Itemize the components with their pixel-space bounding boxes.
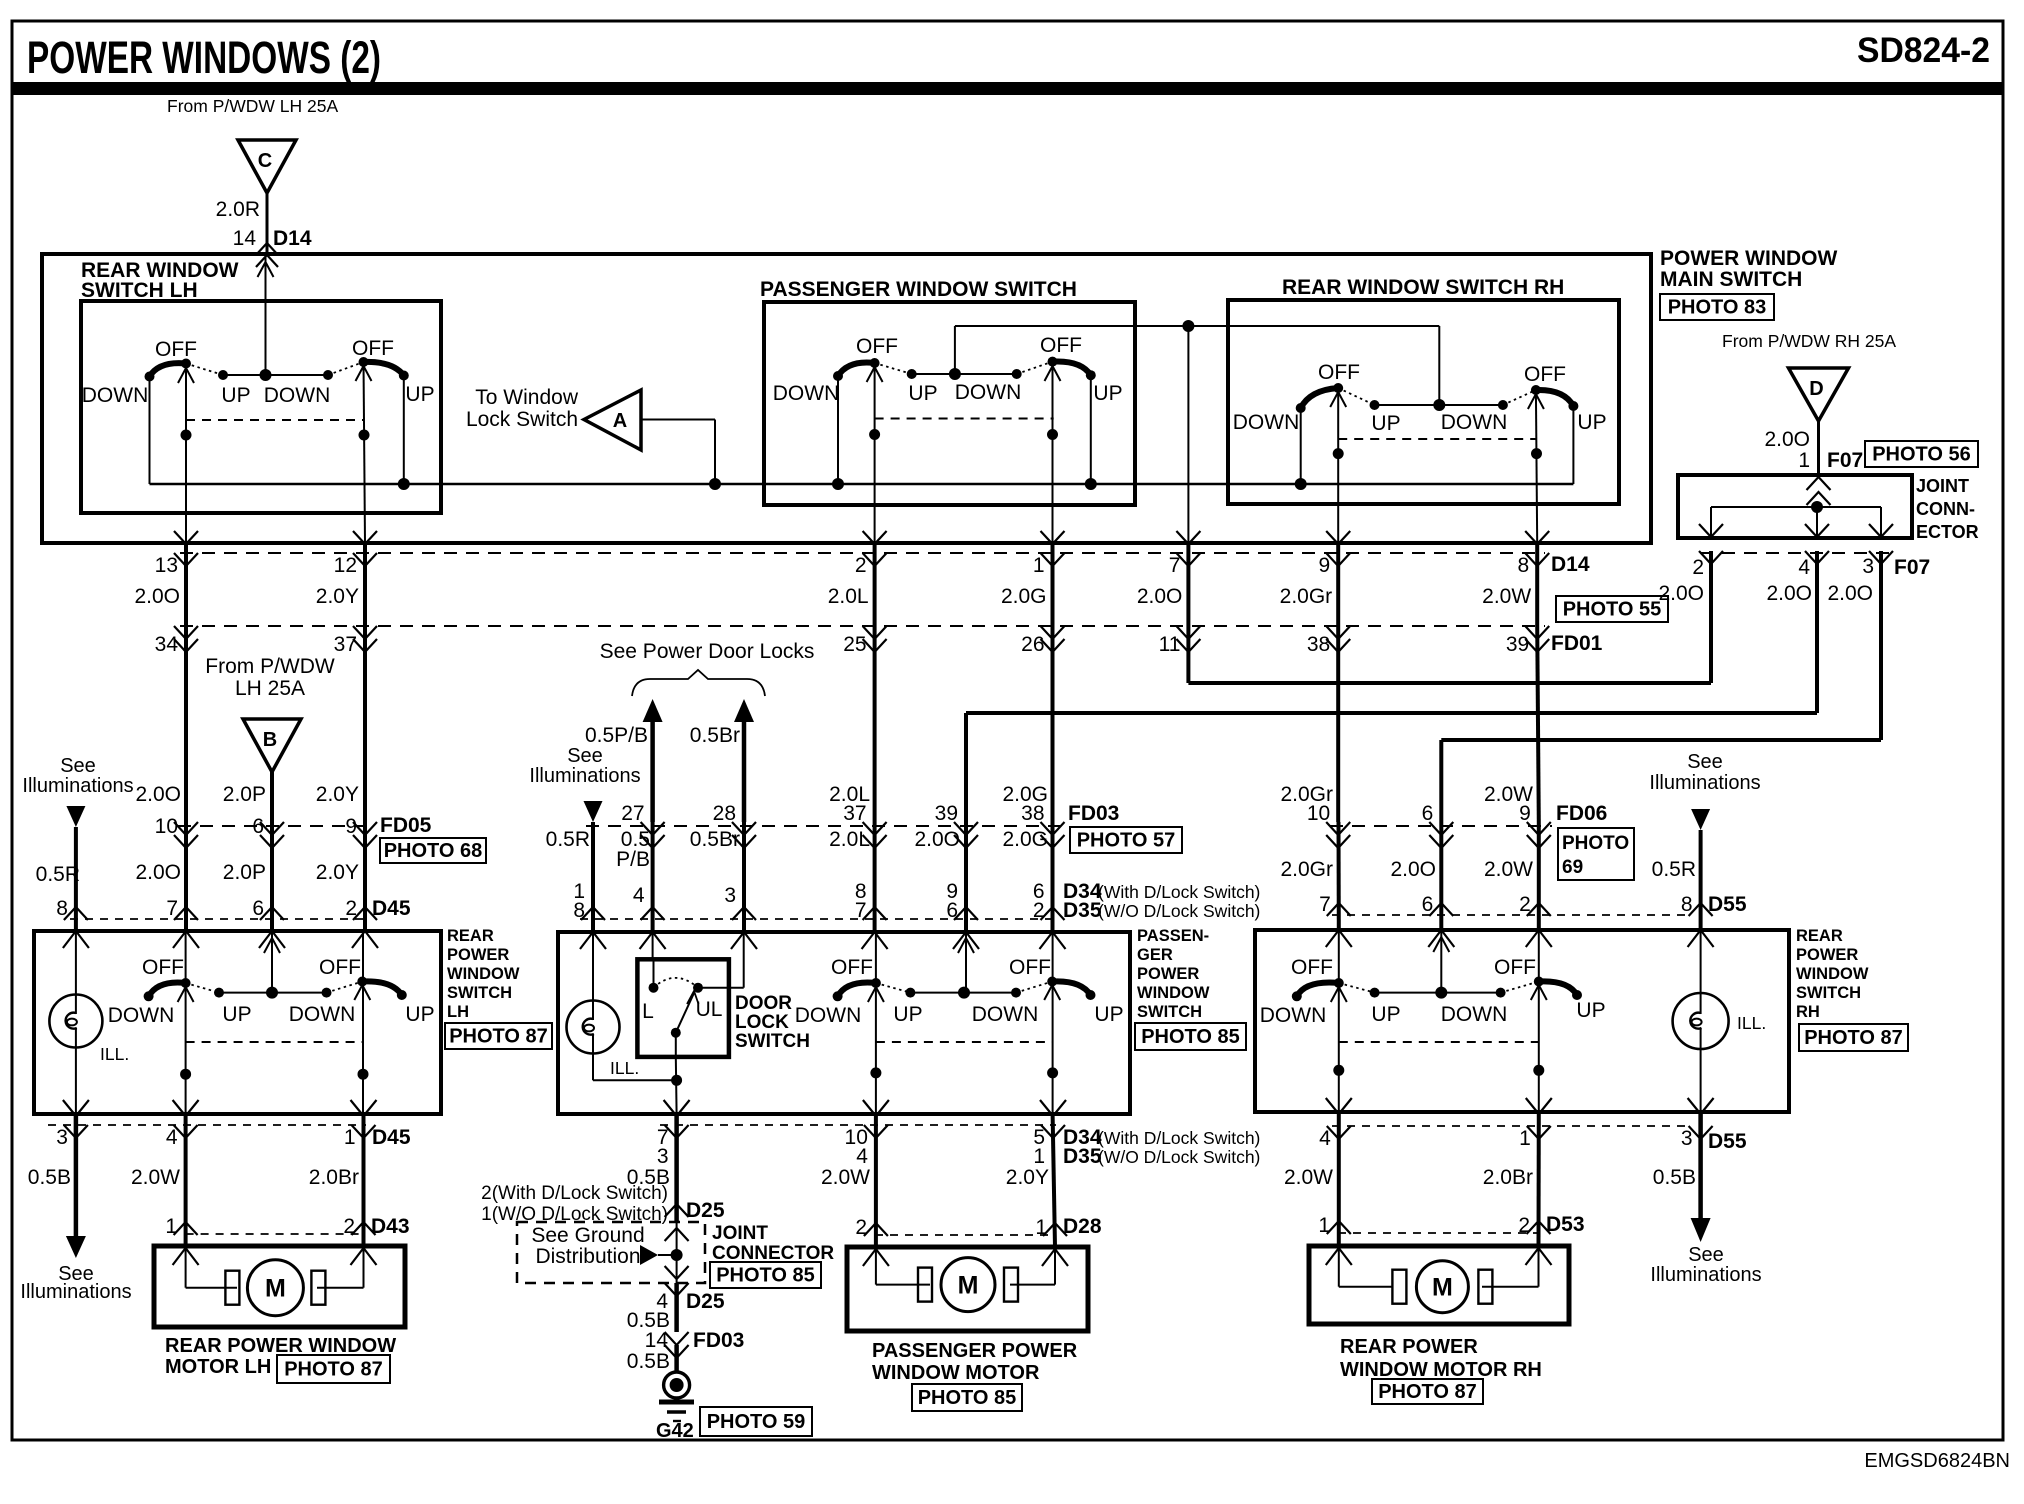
P DOWN1 drop to bus [837, 376, 839, 484]
svg-text:PHOTO 85: PHOTO 85 [918, 1387, 1017, 1409]
svg-text:WINDOW MOTOR RH: WINDOW MOTOR RH [1340, 1359, 1542, 1381]
wire 2.0Br RH [1537, 1112, 1541, 1246]
svg-text:7: 7 [1169, 554, 1181, 577]
label PHOTO 68 [380, 838, 486, 863]
illumination feed arrow right [1691, 809, 1710, 830]
FD03 pin 39 chevrons [954, 822, 978, 835]
wire UL to 0.5Br [698, 987, 744, 989]
svg-text:0.5B: 0.5B [1653, 1166, 1696, 1189]
svg-text:OFF: OFF [1318, 361, 1360, 384]
switch P-2 dotted to OFF [1017, 362, 1053, 374]
F07 exit chevrons pin2 [1699, 524, 1723, 537]
switch PL-2 arc [1052, 981, 1090, 995]
D45 pin 7 chevrons [174, 907, 198, 920]
bus wire from P center to RH center [954, 326, 956, 374]
door lock UL contact [693, 983, 703, 993]
LL mech linkage dashed [186, 1041, 364, 1043]
switch R-2 DOWN contact [1498, 400, 1508, 410]
switch RL mid line [1375, 992, 1501, 994]
svg-text:SWITCH: SWITCH [1796, 984, 1861, 1002]
svg-text:4: 4 [166, 1126, 178, 1149]
LH common 2 wire [356, 366, 372, 381]
svg-text:LH: LH [447, 1003, 469, 1021]
svg-text:UP: UP [222, 1003, 251, 1026]
wire 0.5B to FD03 [674, 1283, 679, 1332]
wire 2.0O col x=186 [184, 626, 188, 822]
connector D34/D35 bottom dashed line [660, 1124, 1056, 1126]
svg-text:POWER: POWER [1137, 965, 1199, 983]
svg-text:D35: D35 [1063, 899, 1102, 922]
svg-text:2.0Y: 2.0Y [316, 861, 359, 884]
wire 2.0G col [1051, 626, 1055, 822]
ground distribution arrow [640, 1245, 658, 1265]
svg-text:PASSENGER WINDOW SWITCH: PASSENGER WINDOW SWITCH [760, 278, 1077, 301]
D28 pin 1 chevrons [1043, 1223, 1067, 1236]
D14 pin 8 chevrons [1525, 531, 1549, 544]
svg-text:Illuminations: Illuminations [20, 1281, 131, 1303]
svg-text:2.0Gr: 2.0Gr [1280, 585, 1333, 608]
switch RL-2 dotted to OFF [1501, 982, 1539, 993]
PL mech linkage dashed [876, 1041, 1053, 1043]
switch R mid line [1375, 404, 1503, 406]
svg-text:OFF: OFF [1040, 334, 1082, 357]
wire [742, 822, 746, 932]
svg-text:DOWN: DOWN [955, 381, 1022, 404]
svg-text:D25: D25 [686, 1290, 725, 1313]
svg-text:From P/WDW RH 25A: From P/WDW RH 25A [1722, 331, 1896, 351]
FD06 pin 10 chevrons [1326, 822, 1350, 835]
svg-text:SWITCH: SWITCH [735, 1031, 810, 1052]
svg-text:2.0W: 2.0W [131, 1166, 180, 1189]
svg-text:From P/WDW: From P/WDW [205, 655, 335, 678]
svg-text:Distribution: Distribution [535, 1245, 640, 1268]
connector FD01 dashed line [180, 625, 1545, 627]
svg-text:GER: GER [1137, 946, 1173, 964]
svg-text:2.0Br: 2.0Br [1483, 1166, 1533, 1189]
svg-text:M: M [1432, 1274, 1453, 1302]
passenger power window switch box [558, 932, 1130, 1114]
wire lamp LH [75, 931, 77, 995]
connector triangle A [584, 390, 641, 450]
D55 pin 8 chevrons [1689, 903, 1713, 916]
ILL lamp RH [1673, 993, 1729, 1049]
svg-text:FD05: FD05 [380, 814, 432, 837]
svg-text:D: D [1809, 378, 1823, 400]
svg-text:2.0O: 2.0O [1390, 858, 1436, 881]
svg-text:REAR POWER: REAR POWER [1340, 1336, 1478, 1358]
svg-text:2: 2 [345, 897, 357, 920]
svg-text:39: 39 [935, 802, 958, 825]
illumination out arrow RH [1691, 1218, 1711, 1242]
joint connector F07 box [1678, 475, 1912, 538]
joint connector D25 dashed box [517, 1222, 705, 1283]
svg-text:POWER: POWER [1796, 946, 1858, 964]
svg-text:OFF: OFF [1494, 956, 1536, 979]
LL common 2 wire [354, 985, 370, 1000]
svg-text:FD03: FD03 [693, 1329, 744, 1352]
svg-text:34: 34 [155, 633, 179, 656]
wire 0.5P/B into L [652, 932, 654, 959]
D55 bottom pin 1 chevrons [1526, 1098, 1552, 1114]
FD01 pin 25 chevrons [863, 626, 887, 639]
wire [1535, 545, 1539, 626]
svg-text:38: 38 [1307, 633, 1330, 656]
D43 pin 1 chevrons [174, 1222, 198, 1235]
svg-text:See: See [1687, 751, 1723, 773]
svg-text:Illuminations: Illuminations [22, 775, 133, 797]
svg-text:CONNECTOR: CONNECTOR [712, 1243, 834, 1264]
wire 2.0W passenger [874, 1114, 878, 1247]
label PHOTO 85 (switch) [1135, 1023, 1246, 1050]
svg-text:10: 10 [155, 815, 178, 838]
D25 entry chevrons [665, 1204, 689, 1217]
wire pin14 into LH switch [265, 254, 267, 375]
svg-text:2.0P: 2.0P [223, 783, 266, 806]
svg-text:1: 1 [1033, 1145, 1045, 1168]
svg-text:L: L [642, 1000, 654, 1023]
FD01 pin 38 chevrons [1326, 626, 1350, 639]
FD05 pin 10 chevrons [174, 822, 198, 835]
svg-text:2.0W: 2.0W [1482, 585, 1531, 608]
switch RL-2 arc [1539, 981, 1577, 995]
wire [873, 545, 877, 626]
svg-text:DOWN: DOWN [289, 1003, 356, 1026]
svg-text:UP: UP [893, 1003, 922, 1026]
svg-text:1: 1 [1519, 1127, 1531, 1150]
D45 pin 6 chevrons [260, 907, 284, 920]
switch PL-2 dotted to OFF [1016, 982, 1052, 993]
rear power window switch RH box [1255, 930, 1789, 1112]
svg-text:D14: D14 [1551, 553, 1590, 576]
switch LL-1 arc [149, 983, 186, 997]
svg-text:8: 8 [56, 897, 68, 920]
svg-text:OFF: OFF [1524, 363, 1566, 386]
switch PL-1 dotted to UP [876, 983, 911, 993]
illumination feed arrow [66, 806, 85, 827]
svg-text:JOINT: JOINT [712, 1223, 768, 1244]
switch RL-2 DOWN contact [1496, 988, 1506, 998]
svg-text:6: 6 [1422, 802, 1434, 825]
ground G42 symbol [664, 1372, 690, 1398]
svg-text:From P/WDW LH 25A: From P/WDW LH 25A [167, 96, 338, 116]
svg-text:9: 9 [1319, 554, 1331, 577]
svg-text:DOWN: DOWN [264, 384, 331, 407]
svg-text:2.0G: 2.0G [1001, 585, 1047, 608]
svg-text:Illuminations: Illuminations [1650, 1264, 1761, 1286]
wire lamp RH [1700, 930, 1702, 993]
svg-text:1: 1 [1798, 449, 1810, 472]
switch P-1 arc [838, 363, 875, 376]
svg-text:UP: UP [1371, 1003, 1400, 1026]
wire [1051, 545, 1055, 626]
wire 2.0W RH [1337, 1112, 1341, 1246]
rear window switch LH box [81, 301, 441, 513]
wire 2.0P FD05-D45 [270, 822, 274, 931]
svg-text:0.5Br: 0.5Br [690, 724, 740, 747]
PL common 2 wire [1044, 985, 1060, 1000]
FD06 pin 9 chevrons [1527, 822, 1551, 835]
svg-text:UP: UP [908, 382, 937, 405]
svg-text:PHOTO 87: PHOTO 87 [1378, 1381, 1477, 1403]
svg-text:69: 69 [1562, 857, 1583, 878]
connector D34/D35 dashed line [580, 918, 1052, 920]
svg-text:(W/O D/Lock Switch): (W/O D/Lock Switch) [1098, 901, 1260, 921]
svg-text:MAIN SWITCH: MAIN SWITCH [1660, 268, 1802, 291]
label PHOTO 83 [1660, 294, 1774, 320]
svg-text:See: See [1688, 1244, 1724, 1266]
junction P-DOWN1 [832, 478, 844, 490]
svg-text:DOWN: DOWN [1233, 411, 1300, 434]
svg-text:2: 2 [855, 554, 867, 577]
svg-text:38: 38 [1021, 802, 1044, 825]
svg-text:PHOTO 87: PHOTO 87 [449, 1026, 548, 1048]
switch LL-1 dotted to UP [186, 983, 219, 993]
svg-text:9: 9 [1519, 802, 1531, 825]
svg-text:2.0O: 2.0O [1766, 582, 1812, 605]
D55 bottom pin 4 chevrons [1326, 1098, 1352, 1114]
svg-text:ECTOR: ECTOR [1916, 522, 1979, 542]
switch RL-1 arc [1297, 983, 1339, 997]
D45 bottom pin 4 chevrons [173, 1100, 199, 1116]
P UP2 drop to bus [1090, 375, 1092, 484]
svg-text:11: 11 [1159, 633, 1181, 656]
connector triangle D [1789, 368, 1849, 421]
connector D55 bottom dashed line [1332, 1125, 1692, 1127]
svg-text:WINDOW: WINDOW [1137, 984, 1210, 1002]
switch RL-1 dotted to UP [1339, 983, 1375, 993]
FD03 pin 37 chevrons [863, 822, 887, 835]
LL center wire to pin 6 [271, 931, 273, 993]
FD05 pin 9 chevrons [353, 822, 377, 835]
D34/D35 pin 6 chevrons [1041, 907, 1065, 920]
svg-text:2.0O: 2.0O [1658, 582, 1704, 605]
D45 pin 2 chevrons [353, 907, 377, 920]
svg-text:B: B [263, 729, 277, 751]
bus wire to window lock switch [150, 483, 1574, 485]
svg-text:WINDOW: WINDOW [1796, 965, 1869, 983]
svg-text:37: 37 [334, 633, 357, 656]
svg-text:JOINT: JOINT [1916, 476, 1969, 496]
door lock dotted arc [654, 978, 699, 988]
wire 2.0W col [1537, 626, 1539, 822]
svg-text:See Power Door Locks: See Power Door Locks [600, 640, 815, 663]
switch R-2 arc [1536, 390, 1574, 406]
junction P-UP2 [1085, 478, 1097, 490]
D55 pin 6 chevrons [1429, 903, 1453, 916]
D34/D35 pin 1 chevrons [581, 907, 605, 920]
D25 exit chevrons [665, 1266, 689, 1279]
svg-text:A: A [613, 410, 627, 432]
connector triangle C [238, 140, 296, 193]
connector D45 bottom dashed line [48, 1124, 366, 1126]
connector F07 dashed line [1700, 552, 1890, 554]
svg-text:2.0Y: 2.0Y [316, 585, 359, 608]
svg-text:0.5R: 0.5R [1652, 858, 1696, 881]
svg-text:2.0O: 2.0O [135, 861, 181, 884]
svg-text:REAR: REAR [1796, 927, 1843, 945]
R center wire to top bus [1438, 326, 1440, 405]
svg-text:2.0O: 2.0O [1827, 582, 1873, 605]
svg-text:D43: D43 [371, 1215, 410, 1238]
svg-text:SWITCH: SWITCH [1137, 1003, 1202, 1021]
F07 internal bus [1711, 506, 1881, 508]
P common 1 wire [867, 367, 883, 382]
svg-text:PHOTO 83: PHOTO 83 [1668, 297, 1767, 319]
wire 2.0P from B [270, 772, 274, 822]
svg-text:D35: D35 [1063, 1145, 1102, 1168]
D34/D35 pin 9 chevrons [954, 907, 978, 920]
label PHOTO 57 [1070, 827, 1182, 853]
svg-text:EMGSD6824BN: EMGSD6824BN [1864, 1450, 2010, 1472]
wire F07 pin2 stub [1709, 553, 1713, 626]
svg-text:DOWN: DOWN [795, 1004, 862, 1027]
connector D55 dashed line [1332, 914, 1690, 916]
D34/D35 pin 4 chevrons [641, 907, 665, 920]
svg-text:9: 9 [345, 815, 357, 838]
R UP2 drop to bus [1572, 406, 1574, 484]
svg-text:F07: F07 [1827, 449, 1863, 472]
label PHOTO 56 [1865, 441, 1978, 467]
F07 exit chevrons pin3 [1869, 524, 1893, 537]
connector triangle B [243, 719, 301, 772]
wire 2.0O from D [1817, 421, 1820, 475]
svg-text:(With D/Lock Switch): (With D/Lock Switch) [1098, 882, 1260, 902]
motor M2 [918, 1268, 932, 1302]
svg-text:27: 27 [621, 802, 644, 825]
switch R-1 dotted to UP [1338, 388, 1374, 405]
svg-text:See: See [567, 745, 603, 767]
svg-text:UP: UP [1576, 999, 1605, 1022]
svg-text:OFF: OFF [1291, 956, 1333, 979]
wire in D25 box [676, 1221, 678, 1283]
svg-text:D53: D53 [1546, 1213, 1585, 1236]
svg-text:FD01: FD01 [1551, 632, 1603, 655]
switch LL-2 dotted to OFF [327, 982, 363, 993]
switch LL mid line [219, 992, 327, 994]
D55 pin 2 chevrons [1527, 903, 1551, 916]
motor M1 [225, 1271, 239, 1305]
switch LL-2 arc [362, 981, 402, 995]
svg-text:6: 6 [1422, 893, 1434, 916]
svg-text:Lock Switch: Lock Switch [466, 408, 578, 431]
svg-text:P/B: P/B [616, 848, 650, 871]
svg-text:See Ground: See Ground [531, 1224, 644, 1247]
wire [964, 822, 968, 932]
wire 2.0O F07 pin2 riser [1186, 626, 1190, 683]
wire 2.0R from C to D14 pin 14 [266, 193, 269, 254]
D45 bottom pin 3 chevrons [63, 1100, 89, 1116]
FD01 pin 11 chevrons [1176, 626, 1200, 639]
svg-text:D14: D14 [273, 227, 312, 250]
svg-text:C: C [258, 150, 272, 172]
svg-text:0.5B: 0.5B [28, 1166, 71, 1189]
svg-text:OFF: OFF [155, 338, 197, 361]
connector FD06 dashed line [1330, 825, 1552, 827]
P common 2 wire [1045, 366, 1061, 381]
connector FD03 dashed line [586, 825, 1060, 827]
junction A [709, 478, 721, 490]
svg-text:PHOTO 59: PHOTO 59 [707, 1411, 806, 1433]
svg-text:2.0O: 2.0O [1764, 428, 1810, 451]
wire lamp passenger top [592, 932, 594, 1000]
svg-text:3: 3 [657, 1145, 669, 1168]
FD01 pin 26 chevrons [1041, 626, 1065, 639]
svg-text:To Window: To Window [475, 386, 579, 409]
svg-text:2.0Y: 2.0Y [1006, 1166, 1049, 1189]
switch LH-2 DOWN contact [323, 370, 333, 380]
svg-text:SWITCH LH: SWITCH LH [81, 279, 198, 302]
R common 2 wire [1528, 394, 1544, 409]
svg-text:POWER WINDOWS (2): POWER WINDOWS (2) [27, 32, 381, 83]
wire 2.0L col [873, 626, 877, 822]
svg-text:(With D/Lock Switch): (With D/Lock Switch) [1098, 1128, 1260, 1148]
svg-text:2.0Gr: 2.0Gr [1280, 858, 1333, 881]
svg-text:D45: D45 [372, 897, 411, 920]
svg-text:D45: D45 [372, 1126, 411, 1149]
svg-text:D25: D25 [686, 1199, 725, 1222]
FD03 pin 38 chevrons [1041, 822, 1065, 835]
svg-text:SD824-2: SD824-2 [1857, 31, 1990, 70]
wire 2.0G to D14 pin 7 [1187, 326, 1189, 543]
svg-text:DOWN: DOWN [1441, 411, 1508, 434]
label PHOTO 87 (motor RH) [1372, 1379, 1483, 1404]
wire [363, 545, 367, 626]
switch R-2 dotted to OFF [1503, 390, 1536, 405]
svg-text:ILL.: ILL. [610, 1058, 639, 1078]
svg-text:2.0G: 2.0G [1002, 828, 1048, 851]
svg-text:PASSENGER POWER: PASSENGER POWER [872, 1340, 1078, 1362]
svg-text:CONN-: CONN- [1916, 499, 1975, 519]
passenger power window motor box [847, 1247, 1088, 1331]
RL center wire to pin 6 [1440, 930, 1442, 993]
rear power window motor RH box [1309, 1246, 1569, 1324]
svg-text:2.0L: 2.0L [829, 828, 870, 851]
door lock common wire [675, 1033, 677, 1057]
svg-text:2.0R: 2.0R [216, 198, 260, 221]
switch LH-2 arc [364, 362, 404, 376]
FD06 pin 6 chevrons [1429, 822, 1453, 835]
svg-text:PHOTO 57: PHOTO 57 [1077, 830, 1176, 852]
svg-text:2.0O: 2.0O [914, 828, 960, 851]
passenger window switch box [764, 302, 1135, 505]
svg-text:G42: G42 [656, 1420, 694, 1442]
title bar rule [12, 82, 2003, 95]
PL common 1 wire [868, 987, 884, 1002]
svg-text:14: 14 [233, 227, 257, 250]
svg-text:D55: D55 [1708, 1130, 1747, 1153]
PL center wire to pin 9/6 [965, 932, 967, 993]
label PHOTO 69 [1558, 828, 1634, 880]
wire [1336, 545, 1340, 626]
connector FD05 dashed line [178, 825, 372, 827]
F07 pin1 chevrons [1807, 477, 1831, 490]
LL common 1 wire [178, 987, 194, 1002]
svg-text:2.0W: 2.0W [1484, 858, 1533, 881]
wire A to bus [641, 419, 715, 421]
svg-text:DOWN: DOWN [108, 1004, 175, 1027]
svg-text:2.0W: 2.0W [821, 1166, 870, 1189]
svg-text:OFF: OFF [1009, 956, 1051, 979]
D34/D35 bottom pin 10 chevrons [863, 1100, 889, 1116]
wire 0.5R left [74, 827, 78, 931]
svg-text:WINDOW MOTOR: WINDOW MOTOR [872, 1362, 1040, 1384]
svg-text:D28: D28 [1063, 1215, 1102, 1238]
D34/D35 pin 8 chevrons [863, 907, 887, 920]
motor M3 [1392, 1270, 1406, 1304]
label PHOTO 87 (motor LH) [277, 1355, 390, 1383]
FD01 pin 37 chevrons [353, 626, 377, 639]
wire 0.5B door lock common [674, 1114, 679, 1221]
